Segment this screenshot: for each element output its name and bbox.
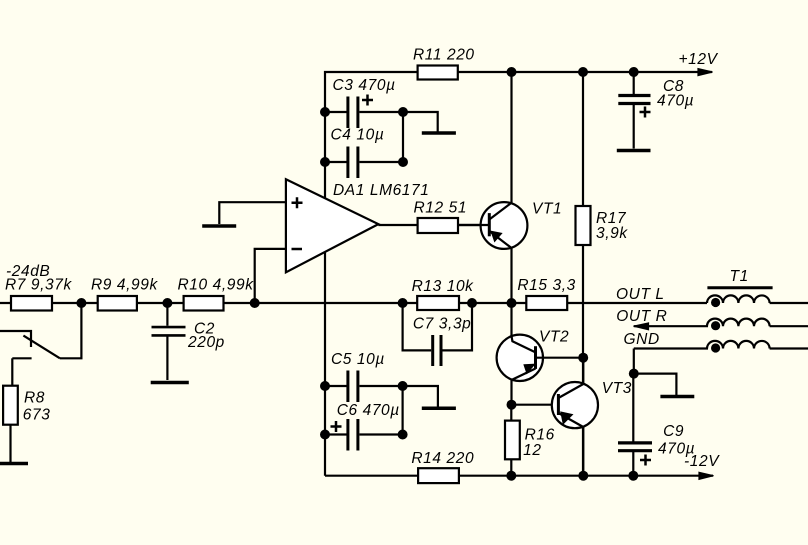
node T1 phase dot 3 — [711, 343, 720, 352]
resistor R8 — [3, 386, 18, 425]
node C5 right — [398, 381, 408, 391]
resistor R13 — [417, 296, 459, 310]
svg-text:GND: GND — [624, 331, 660, 348]
wire bottom rail -12V — [325, 475, 713, 477]
ground (C5/C6) — [422, 407, 456, 411]
svg-text:C7 3,3p: C7 3,3p — [413, 316, 472, 333]
node R13 right — [467, 298, 477, 308]
node VT2 base / VT3 collector — [578, 353, 588, 363]
svg-text:OUT R: OUT R — [616, 308, 667, 325]
svg-text:R16: R16 — [525, 427, 555, 444]
svg-text:R15 3,3: R15 3,3 — [517, 277, 576, 294]
wire GND net vertical — [633, 349, 635, 374]
wire inverting input — [255, 249, 286, 303]
node bottom rail C9 — [628, 471, 638, 481]
resistor R14 — [418, 468, 459, 483]
wire OUT R arrow — [634, 323, 649, 330]
svg-text:-12V: -12V — [684, 453, 720, 470]
wire op-amp output — [378, 224, 417, 226]
node inverting input — [250, 298, 260, 308]
node C6 left — [320, 430, 330, 440]
svg-text:C9: C9 — [663, 423, 684, 440]
resistor R9 — [98, 296, 137, 311]
wire +12V arrow — [698, 69, 713, 76]
svg-text:R9 4,99k: R9 4,99k — [91, 277, 158, 294]
node C4 right — [398, 157, 408, 167]
node switch tap — [76, 298, 86, 308]
ground (C8) — [617, 149, 651, 153]
node C3 right — [398, 107, 408, 117]
svg-text:DA1 LM6171: DA1 LM6171 — [333, 182, 429, 199]
op-amp U1 DA1 — [286, 179, 379, 272]
node C5 left — [320, 381, 330, 391]
ground (C3/C4) — [422, 131, 456, 135]
transistor Q1 VT1 — [458, 202, 527, 249]
node bottom rail R16 — [506, 471, 516, 481]
capacitor C7 — [403, 303, 472, 366]
wire R12 to VT1 base — [458, 224, 489, 226]
node R13 left — [398, 298, 408, 308]
capacitor C9 — [618, 374, 652, 476]
node top rail R17 — [578, 67, 588, 77]
ground (C2) — [151, 381, 189, 385]
transformer T1 winding 1 — [707, 295, 808, 303]
wire -12V arrow — [699, 472, 714, 479]
ground (R8) — [0, 462, 28, 466]
wire op-amp V+ / V- vertical — [324, 112, 326, 476]
svg-text:C3 470µ: C3 470µ — [333, 77, 396, 94]
svg-text:VT1: VT1 — [532, 201, 562, 218]
wire VT1 emitter vertical — [510, 248, 512, 303]
node VT2 emitter / VT3 base — [507, 400, 517, 410]
wire C3 to ground — [403, 112, 438, 132]
wire VT1 collector vertical — [510, 72, 512, 203]
resistor R12 — [418, 218, 458, 233]
op-amp minus sign — [292, 248, 303, 251]
wire R8 to ground — [9, 425, 11, 462]
capacitor C2 — [152, 303, 186, 380]
capacitor C5 — [325, 371, 403, 403]
node top rail C8 — [629, 67, 639, 77]
svg-text:C4 10µ: C4 10µ — [331, 127, 385, 144]
node top rail VT1 — [507, 67, 517, 77]
capacitor C8 — [618, 72, 650, 149]
svg-text:220p: 220p — [187, 334, 225, 351]
wire C3-C4 right vertical — [402, 112, 404, 162]
node T1 phase dot 2 — [711, 321, 720, 330]
wire +input ground — [219, 202, 286, 224]
resistor R7 — [11, 296, 52, 311]
svg-text:VT3: VT3 — [602, 380, 632, 397]
node VT1 emitter rail — [507, 298, 517, 308]
node T1 phase dot 1 — [711, 298, 720, 307]
svg-text:R14 220: R14 220 — [411, 450, 474, 467]
transformer T1 winding 2 — [707, 319, 808, 327]
svg-text:470µ: 470µ — [657, 93, 694, 110]
capacitor C4 — [325, 147, 403, 179]
switch SA1 — [0, 303, 81, 386]
transistor Q3 VT3 — [512, 358, 599, 476]
svg-text:T1: T1 — [730, 268, 749, 285]
node C6 right — [398, 430, 408, 440]
svg-text:C6 470µ: C6 470µ — [337, 402, 400, 419]
ground (op-amp +input) — [202, 224, 236, 228]
capacitor C3 — [325, 95, 403, 129]
node C3 left — [320, 107, 330, 117]
node C4 left — [320, 157, 330, 167]
resistor R16 — [505, 405, 520, 476]
resistor R10 — [184, 296, 224, 311]
svg-text:12: 12 — [523, 442, 541, 459]
svg-text:VT2: VT2 — [539, 329, 569, 346]
node GND junction — [629, 369, 639, 379]
wire GND to ground — [634, 374, 677, 395]
svg-text:+12V: +12V — [679, 51, 719, 68]
node bottom rail VT3 — [578, 471, 588, 481]
wire C5 to ground — [403, 386, 438, 407]
wire OUT R stub — [634, 325, 708, 327]
resistor R17 — [576, 72, 591, 476]
wire C5-C6 right vertical — [402, 386, 404, 435]
svg-text:C5 10µ: C5 10µ — [331, 351, 385, 368]
svg-text:R8: R8 — [24, 390, 45, 407]
svg-text:R7 9,37k: R7 9,37k — [5, 277, 72, 294]
svg-text:R10 4,99k: R10 4,99k — [178, 277, 255, 294]
svg-text:673: 673 — [23, 407, 51, 424]
wire GND row to transformer — [634, 347, 708, 349]
svg-text:R12 51: R12 51 — [414, 200, 468, 217]
wire main signal rail — [0, 302, 707, 304]
resistor R15 — [526, 296, 567, 310]
transformer T1 core — [707, 286, 772, 289]
svg-text:R13 10k: R13 10k — [412, 278, 475, 295]
svg-text:OUT L: OUT L — [616, 286, 665, 303]
svg-text:R11 220: R11 220 — [413, 47, 475, 64]
op-amp plus sign — [292, 197, 303, 208]
capacitor C6 — [325, 419, 403, 451]
svg-text:3,9k: 3,9k — [596, 225, 628, 242]
resistor R11 — [418, 66, 458, 80]
node C2 tap — [162, 298, 172, 308]
transistor Q2 VT2 — [497, 303, 584, 405]
transformer T1 winding 3 — [707, 341, 808, 349]
ground (GND net) — [660, 395, 694, 399]
wire top rail +12V — [325, 72, 712, 112]
